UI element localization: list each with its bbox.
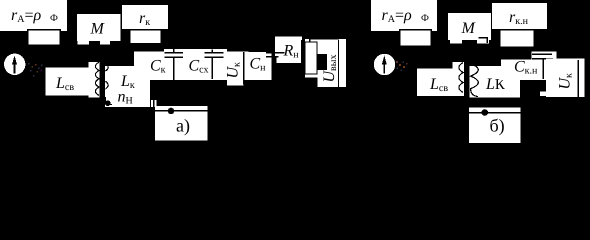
svg-text:M: M (90, 21, 106, 38)
wire Rn box right border (301, 40, 306, 63)
resistor rk body (130, 30, 162, 44)
wire top rail to output (310, 33, 339, 39)
node eA faint label right (396, 61, 408, 71)
load cap Cn patch (244, 52, 271, 80)
svg-text:rА=ρ: rА=ρ (11, 7, 42, 25)
capacitor Cn (266, 52, 285, 78)
wire Uk branch (243, 52, 245, 84)
svg-text:Ф: Ф (421, 13, 429, 24)
output patch Uvyx (318, 39, 347, 87)
tap wire and junction (105, 97, 112, 106)
capacitor Ck (150, 49, 183, 80)
capacitor Csx (189, 50, 224, 79)
caption box a) (155, 106, 208, 141)
output patch Uk right (546, 59, 585, 98)
svg-text:Ф: Ф (50, 13, 58, 24)
coil Lsv winding right (459, 63, 463, 93)
svg-text:б): б) (490, 116, 505, 136)
resistor Rn body (305, 37, 318, 78)
EMF source eA circle (4, 54, 25, 75)
coil Lsv winding (95, 62, 99, 95)
EMF source eA circle right (374, 54, 395, 75)
coil LK winding and label (470, 64, 521, 98)
node eA faint label (28, 63, 43, 77)
label box rk (122, 5, 168, 29)
capacitor Ck.n (514, 54, 553, 79)
load resistor Rn label patch (275, 36, 302, 63)
svg-text:rА=ρ: rА=ρ (382, 7, 413, 25)
coupling coil Lsv label box (46, 62, 100, 98)
label box rA=rho_F right (371, 0, 437, 31)
svg-text:а): а) (176, 116, 190, 136)
core bar (99, 55, 105, 108)
label box rA=rho_F (0, 0, 67, 31)
svg-text:M: M (461, 20, 477, 37)
coupling coil Lsv label box right (417, 62, 464, 96)
core bar right (464, 55, 470, 108)
mutual inductance M label box (77, 14, 121, 45)
resistor rA body right (400, 30, 432, 47)
resistor rA body (28, 30, 61, 46)
tank patch right (501, 52, 557, 97)
resistor rk.n body (500, 30, 535, 48)
wire stub to a) (151, 100, 157, 107)
label box rk.n (492, 3, 547, 29)
caption box b) (469, 108, 521, 144)
tank label band (134, 49, 249, 86)
coil Lk winding and label (105, 64, 150, 108)
mutual inductance M label box right (448, 13, 491, 44)
